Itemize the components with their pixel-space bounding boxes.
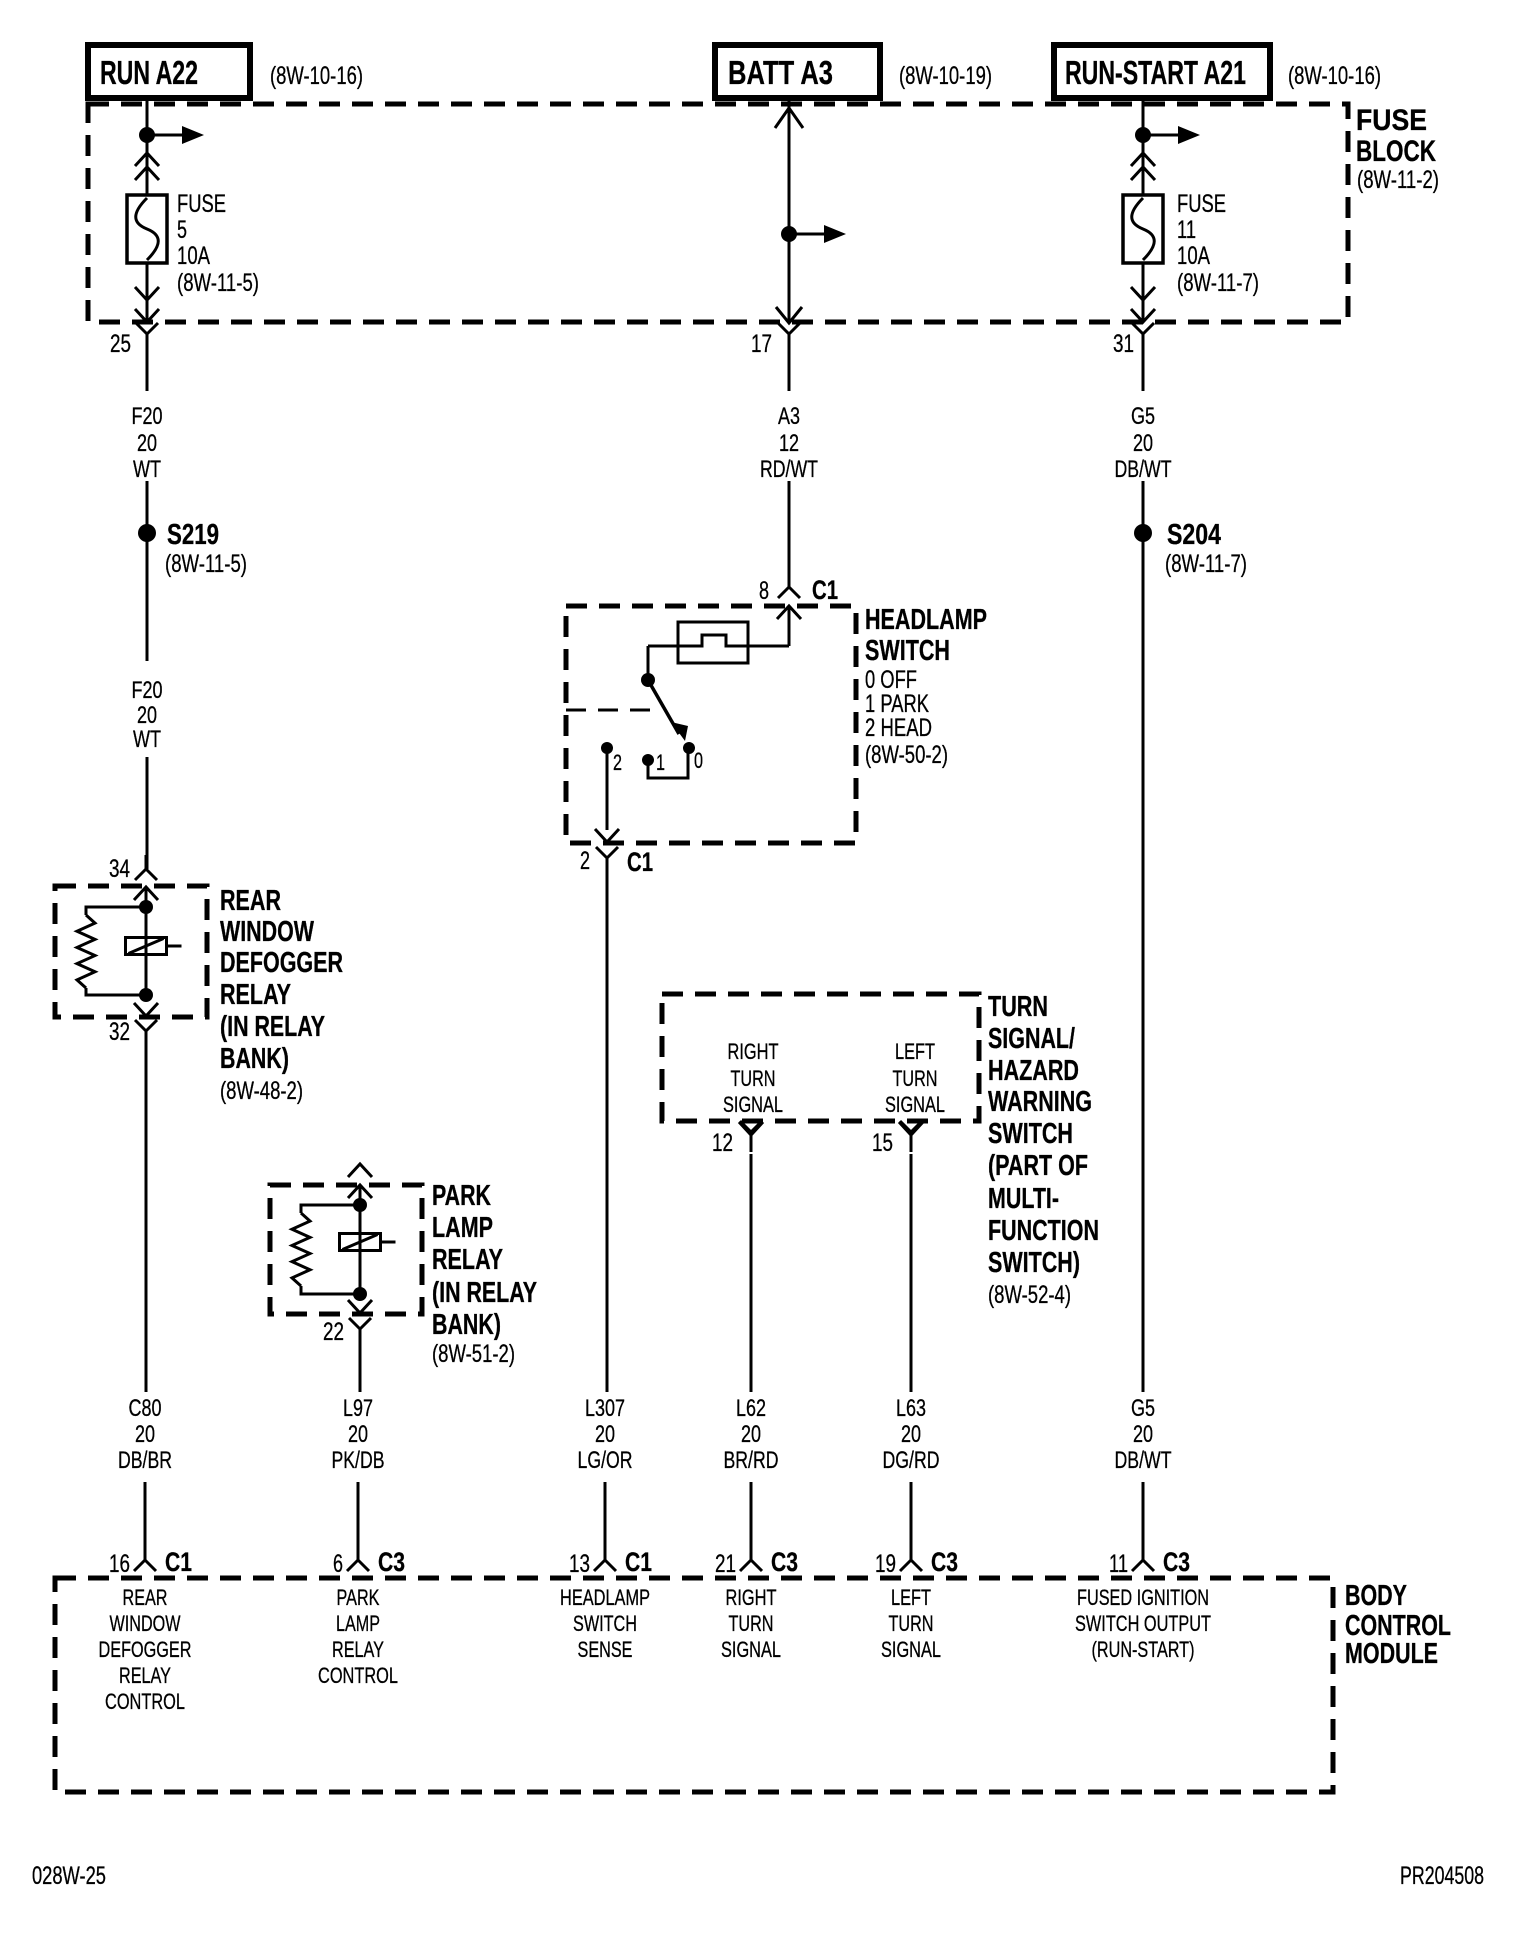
svg-text:WARNING: WARNING: [988, 1086, 1092, 1118]
svg-text:19: 19: [875, 1550, 896, 1578]
svg-text:5: 5: [177, 216, 187, 244]
svg-text:20: 20: [595, 1421, 615, 1448]
svg-text:20: 20: [348, 1421, 368, 1448]
svg-text:RELAY: RELAY: [432, 1244, 503, 1276]
svg-text:REAR: REAR: [123, 1585, 168, 1610]
svg-text:(8W-11-2): (8W-11-2): [1357, 166, 1439, 194]
svg-text:RELAY: RELAY: [220, 979, 291, 1011]
svg-text:MODULE: MODULE: [1345, 1638, 1438, 1670]
svg-text:G5: G5: [1131, 1395, 1155, 1422]
svg-text:(8W-51-2): (8W-51-2): [432, 1340, 515, 1368]
svg-text:REAR: REAR: [220, 885, 281, 917]
svg-text:21: 21: [715, 1550, 736, 1578]
svg-text:(PART OF: (PART OF: [988, 1150, 1088, 1182]
svg-text:TURN: TURN: [729, 1611, 774, 1636]
svg-text:34: 34: [109, 855, 130, 883]
svg-text:MULTI-: MULTI-: [988, 1183, 1059, 1215]
svg-text:PARK: PARK: [337, 1585, 380, 1610]
svg-text:DB/WT: DB/WT: [1115, 1447, 1172, 1474]
svg-text:2: 2: [580, 847, 590, 875]
svg-text:(8W-10-16): (8W-10-16): [270, 62, 363, 90]
svg-text:11: 11: [1109, 1550, 1128, 1578]
svg-text:DG/RD: DG/RD: [883, 1447, 940, 1474]
svg-text:TURN: TURN: [889, 1611, 934, 1636]
svg-text:10A: 10A: [177, 242, 210, 270]
svg-text:F20: F20: [132, 677, 163, 704]
svg-text:15: 15: [872, 1129, 893, 1157]
svg-text:SIGNAL: SIGNAL: [721, 1637, 781, 1662]
svg-text:PR204508: PR204508: [1400, 1862, 1484, 1890]
svg-text:SIGNAL: SIGNAL: [885, 1092, 945, 1117]
svg-text:17: 17: [751, 330, 772, 358]
svg-text:LAMP: LAMP: [336, 1611, 380, 1636]
svg-text:LEFT: LEFT: [895, 1039, 935, 1064]
svg-text:RELAY: RELAY: [119, 1663, 171, 1688]
svg-text:FUSE: FUSE: [1177, 190, 1226, 218]
svg-text:20: 20: [137, 430, 157, 457]
svg-text:C3: C3: [771, 1547, 798, 1577]
svg-text:RD/WT: RD/WT: [760, 456, 818, 483]
svg-text:SWITCH): SWITCH): [988, 1247, 1080, 1279]
svg-text:DB/WT: DB/WT: [1115, 456, 1172, 483]
svg-text:16: 16: [109, 1550, 130, 1578]
svg-text:0: 0: [694, 748, 703, 773]
svg-text:31: 31: [1113, 330, 1134, 358]
svg-text:FUSE: FUSE: [177, 190, 226, 218]
svg-text:20: 20: [137, 702, 157, 729]
svg-text:(IN RELAY: (IN RELAY: [432, 1277, 537, 1309]
svg-text:PARK: PARK: [432, 1180, 491, 1212]
svg-text:(RUN-START): (RUN-START): [1092, 1637, 1195, 1662]
svg-text:(8W-10-19): (8W-10-19): [899, 62, 992, 90]
svg-text:(8W-11-5): (8W-11-5): [177, 269, 259, 297]
svg-text:DB/BR: DB/BR: [118, 1447, 172, 1474]
svg-text:L307: L307: [585, 1395, 625, 1422]
svg-text:BANK): BANK): [220, 1043, 289, 1075]
svg-text:028W-25: 028W-25: [32, 1862, 106, 1890]
svg-text:(8W-52-4): (8W-52-4): [988, 1281, 1071, 1309]
svg-text:2 HEAD: 2 HEAD: [865, 714, 932, 742]
svg-text:RIGHT: RIGHT: [726, 1585, 777, 1610]
svg-text:RUN-START A21: RUN-START A21: [1065, 54, 1246, 91]
svg-text:SWITCH: SWITCH: [573, 1611, 637, 1636]
svg-text:25: 25: [110, 330, 131, 358]
svg-text:L63: L63: [896, 1395, 926, 1422]
svg-text:SWITCH: SWITCH: [865, 635, 950, 667]
svg-text:TURN: TURN: [893, 1066, 938, 1091]
svg-text:C1: C1: [165, 1547, 192, 1577]
svg-text:S219: S219: [167, 519, 219, 551]
svg-text:RIGHT: RIGHT: [728, 1039, 779, 1064]
svg-text:CONTROL: CONTROL: [105, 1689, 185, 1714]
svg-text:WT: WT: [133, 456, 161, 483]
svg-text:C3: C3: [931, 1547, 958, 1577]
svg-text:CONTROL: CONTROL: [318, 1663, 398, 1688]
svg-text:S204: S204: [1167, 519, 1221, 551]
svg-text:20: 20: [135, 1421, 155, 1448]
svg-text:12: 12: [712, 1129, 733, 1157]
svg-text:WT: WT: [133, 726, 161, 753]
svg-text:L97: L97: [343, 1395, 373, 1422]
svg-text:11: 11: [1177, 216, 1196, 244]
svg-text:RUN A22: RUN A22: [100, 54, 198, 91]
svg-text:SWITCH: SWITCH: [988, 1118, 1073, 1150]
svg-text:SIGNAL: SIGNAL: [881, 1637, 941, 1662]
svg-text:8: 8: [759, 577, 769, 605]
svg-text:2: 2: [613, 750, 622, 775]
svg-text:20: 20: [1133, 430, 1153, 457]
svg-text:DEFOGGER: DEFOGGER: [99, 1637, 192, 1662]
svg-text:(IN RELAY: (IN RELAY: [220, 1011, 325, 1043]
svg-text:32: 32: [109, 1018, 130, 1046]
svg-text:C80: C80: [129, 1395, 162, 1422]
svg-text:L62: L62: [736, 1395, 766, 1422]
svg-text:C1: C1: [812, 575, 838, 605]
svg-text:C3: C3: [1163, 1547, 1190, 1577]
svg-text:(8W-11-7): (8W-11-7): [1165, 550, 1247, 578]
svg-text:(8W-11-7): (8W-11-7): [1177, 269, 1259, 297]
svg-text:SIGNAL: SIGNAL: [723, 1092, 783, 1117]
svg-text:LAMP: LAMP: [432, 1212, 493, 1244]
svg-text:BATT A3: BATT A3: [728, 54, 833, 91]
svg-text:BLOCK: BLOCK: [1356, 135, 1436, 168]
svg-text:SWITCH OUTPUT: SWITCH OUTPUT: [1075, 1611, 1211, 1636]
svg-text:BANK): BANK): [432, 1309, 501, 1341]
svg-text:(8W-48-2): (8W-48-2): [220, 1077, 303, 1105]
svg-text:HEADLAMP: HEADLAMP: [560, 1585, 650, 1610]
svg-text:TURN: TURN: [988, 991, 1048, 1023]
svg-text:C1: C1: [625, 1547, 652, 1577]
svg-text:FUNCTION: FUNCTION: [988, 1215, 1099, 1247]
svg-text:WINDOW: WINDOW: [110, 1611, 181, 1636]
svg-text:(8W-11-5): (8W-11-5): [165, 550, 247, 578]
svg-text:HEADLAMP: HEADLAMP: [865, 604, 987, 636]
svg-text:HAZARD: HAZARD: [988, 1055, 1079, 1087]
svg-text:20: 20: [1133, 1421, 1153, 1448]
svg-text:SIGNAL/: SIGNAL/: [988, 1023, 1075, 1055]
svg-text:6: 6: [333, 1550, 343, 1578]
svg-text:PK/DB: PK/DB: [332, 1447, 385, 1474]
svg-text:BODY: BODY: [1345, 1580, 1407, 1612]
svg-text:F20: F20: [132, 403, 163, 430]
svg-text:RELAY: RELAY: [332, 1637, 384, 1662]
svg-text:LG/OR: LG/OR: [578, 1447, 633, 1474]
svg-text:20: 20: [741, 1421, 761, 1448]
svg-text:SENSE: SENSE: [578, 1637, 633, 1662]
svg-text:22: 22: [323, 1318, 344, 1346]
svg-text:C1: C1: [627, 847, 653, 877]
svg-text:G5: G5: [1131, 403, 1155, 430]
svg-text:1: 1: [656, 750, 665, 775]
svg-text:WINDOW: WINDOW: [220, 916, 314, 948]
svg-text:TURN: TURN: [731, 1066, 776, 1091]
svg-text:(8W-50-2): (8W-50-2): [865, 741, 948, 769]
svg-text:10A: 10A: [1177, 242, 1210, 270]
svg-text:A3: A3: [778, 403, 800, 430]
svg-text:C3: C3: [378, 1547, 405, 1577]
svg-text:DEFOGGER: DEFOGGER: [220, 947, 343, 979]
svg-text:BR/RD: BR/RD: [724, 1447, 779, 1474]
svg-text:(8W-10-16): (8W-10-16): [1288, 62, 1381, 90]
svg-text:LEFT: LEFT: [891, 1585, 931, 1610]
svg-text:12: 12: [779, 430, 799, 457]
svg-text:FUSED IGNITION: FUSED IGNITION: [1077, 1585, 1209, 1610]
svg-text:13: 13: [569, 1550, 590, 1578]
svg-text:20: 20: [901, 1421, 921, 1448]
svg-text:FUSE: FUSE: [1356, 104, 1427, 137]
